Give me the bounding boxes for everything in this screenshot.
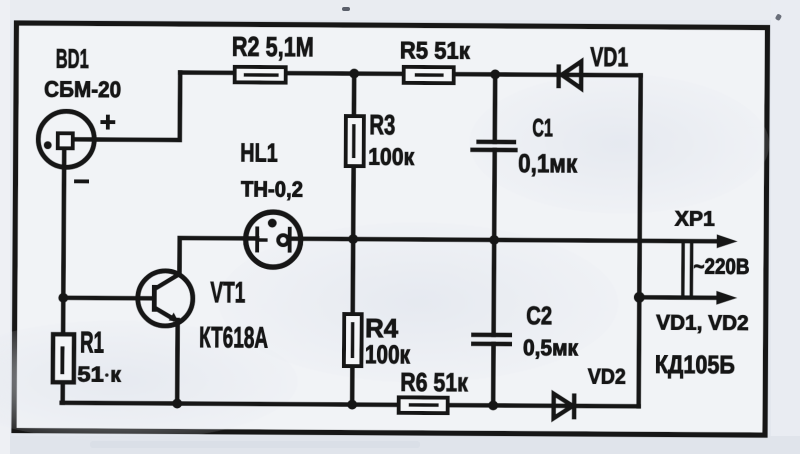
plug XP1 pin arrow lower — [716, 291, 737, 305]
wire: middle rail from HL1 right electrode to XP1 arrow — [290, 239, 723, 242]
geiger counter tube BD1 — [38, 111, 94, 167]
resistor R5 — [404, 67, 454, 83]
wire: top rail from corner through R2, R5, VD1 to right corner — [180, 73, 640, 76]
wire: geiger tube bottom lead down to base node and R1 — [63, 148, 65, 403]
capacitor C2 — [471, 335, 512, 344]
svg-text:VD1: VD1 — [590, 42, 628, 72]
wire: collector vertical and lead to HL1 left electrode — [179, 238, 257, 274]
transistor VT1 — [138, 271, 193, 326]
node: base junction — [58, 293, 68, 303]
label 51к — [105, 373, 109, 377]
svg-text:C1: C1 — [532, 114, 553, 142]
wire: C1/C2 vertical branch upper segment — [492, 74, 497, 141]
neon lamp HL1 — [246, 212, 301, 267]
svg-text:к: к — [110, 363, 121, 387]
svg-text:R6 51к: R6 51к — [400, 367, 468, 397]
svg-text:100к: 100к — [365, 339, 411, 369]
capacitor C1 — [470, 142, 518, 150]
resistor R2 — [235, 67, 286, 83]
svg-text:R2 5,1М: R2 5,1М — [232, 31, 314, 63]
node: middle rail / C1-C2 junction — [489, 235, 499, 245]
wire: bottom rail from R1 to VD2 corner — [62, 403, 639, 407]
svg-text:VD2: VD2 — [588, 365, 626, 389]
minus polarity mark — [74, 179, 89, 183]
svg-text:XP1: XP1 — [675, 208, 715, 231]
diode VD2 — [554, 393, 575, 419]
plus polarity mark — [100, 115, 115, 130]
node: middle rail / R3-R4 junction — [348, 234, 358, 244]
svg-text:VD1, VD2: VD1, VD2 — [656, 311, 749, 335]
svg-text:R1: R1 — [80, 326, 104, 359]
wire: base lead from node to VT1 base — [63, 296, 154, 301]
wire: C2 to bottom rail segment — [491, 344, 496, 405]
node: top rail / R3 junction — [349, 69, 359, 79]
node: emitter / bottom rail junction — [172, 398, 182, 408]
resistor R3 — [346, 116, 364, 166]
wire: geiger tube right lead to top rail corner — [73, 72, 180, 140]
node: R4 / bottom rail junction — [347, 400, 357, 410]
wire: right vertical from VD1 corner down to VD2 corner — [639, 75, 641, 406]
resistor R6 — [399, 397, 448, 413]
wire: middle rail to C2 segment — [491, 240, 496, 335]
node: top rail / C1 junction — [490, 69, 500, 79]
svg-text:51: 51 — [77, 362, 104, 386]
svg-text:100к: 100к — [368, 144, 415, 171]
plug XP1 body bars — [683, 240, 692, 298]
node: XP1 lower pin junction — [634, 292, 645, 303]
svg-text:ТН-0,2: ТН-0,2 — [241, 176, 303, 201]
resistor R1 — [53, 334, 74, 382]
node: C2 / bottom rail junction — [488, 400, 498, 410]
wire: emitter vertical down to bottom rail — [175, 320, 180, 403]
svg-text:BD1: BD1 — [56, 44, 89, 74]
svg-text:HL1: HL1 — [240, 137, 278, 167]
svg-text:0,5мк: 0,5мк — [523, 335, 579, 360]
wire: R3/R4 vertical branch — [352, 74, 354, 405]
svg-text:СБМ-20: СБМ-20 — [44, 77, 121, 102]
resistor R4 — [344, 314, 362, 366]
svg-text:КД105Б: КД105Б — [655, 351, 735, 379]
plug XP1 pin arrow upper — [717, 234, 738, 248]
svg-text:КТ618А: КТ618А — [199, 321, 268, 354]
svg-text:C2: C2 — [526, 302, 552, 330]
wire: lower XP1 pin from node — [639, 295, 722, 300]
svg-text:R3: R3 — [369, 109, 395, 140]
wire: C1 to middle rail segment — [492, 150, 497, 240]
svg-text:R5 51к: R5 51к — [400, 37, 471, 64]
svg-text:VT1: VT1 — [210, 276, 245, 309]
svg-text:0,1мк: 0,1мк — [518, 148, 578, 178]
svg-text:~220В: ~220В — [693, 254, 749, 279]
diode VD1 — [559, 61, 582, 88]
